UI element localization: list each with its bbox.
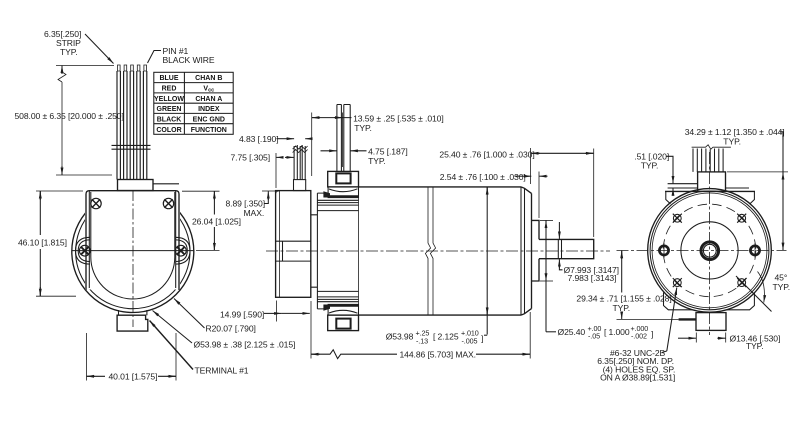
- svg-text:Ø53.98: Ø53.98: [386, 332, 414, 342]
- end bell seam: [520, 187, 522, 315]
- dia 7.993 dim arrows: [558, 222, 560, 239]
- svg-text:MAX.: MAX.: [244, 208, 265, 218]
- brush cap bottom: [328, 315, 359, 331]
- svg-text:Ø53.98 ± .38 [2.125 ± .015]: Ø53.98 ± .38 [2.125 ± .015]: [194, 340, 296, 350]
- connector base plate left ticks: [668, 184, 698, 188]
- dim 46.10 extension top: [36, 190, 83, 192]
- wires right view: [693, 149, 723, 172]
- dim 25.40 ext lines: [530, 148, 532, 184]
- front bell band outline: [317, 193, 327, 309]
- side hole right: [750, 243, 759, 258]
- encoder housing seam: [276, 191, 280, 297]
- encoder top step lip: [153, 183, 179, 185]
- saddle bottom black wedge: [323, 305, 330, 311]
- ext encoder left top: [275, 153, 277, 188]
- post tops: [337, 104, 350, 106]
- dim 144.86 line: [311, 353, 320, 355]
- screw right: [175, 245, 186, 256]
- right ear tab: [176, 237, 191, 264]
- band ring lines bottom: [317, 291, 358, 301]
- terminal tab thick: [679, 318, 696, 320]
- terminal block lower: [117, 315, 148, 331]
- dim 508.00 extension top: [56, 65, 114, 67]
- svg-text:TYP.: TYP.: [368, 156, 386, 166]
- dia 53.98 dim line vertical: [486, 187, 488, 195]
- svg-text:TERMINAL #1: TERMINAL #1: [195, 366, 249, 376]
- dim 13.46 ext lines: [695, 333, 697, 343]
- leader 8.89: [265, 196, 269, 204]
- motor D-shaped housing: [91, 192, 175, 299]
- dia 25.40 boss dim: [545, 220, 547, 331]
- dim 46.10 line: [39, 191, 41, 200]
- terminal block bottom: [696, 313, 726, 331]
- connector base plate right tick: [726, 187, 750, 189]
- horizontal centerline: [617, 249, 787, 251]
- flange left corner: [666, 191, 671, 204]
- shaft boss: [532, 220, 540, 281]
- svg-text:RED: RED: [162, 86, 177, 93]
- outer circle 2: [650, 191, 769, 310]
- wire cut line with break: [692, 145, 731, 149]
- saddle top: [328, 187, 358, 198]
- encoder square housing: [86, 191, 179, 290]
- table grid: [154, 72, 233, 134]
- wires side view: [294, 145, 305, 180]
- svg-text:TYP.: TYP.: [613, 303, 631, 313]
- svg-text:]: ]: [481, 334, 483, 344]
- svg-text:TYP.: TYP.: [723, 137, 741, 147]
- wire 3: [129, 71, 131, 180]
- svg-text:CHAN B: CHAN B: [195, 75, 222, 82]
- encoder square mask: [85, 189, 180, 290]
- dim 13.59 ext lines: [311, 113, 313, 177]
- flange bottom-right corner: [727, 293, 755, 310]
- svg-text:GREEN: GREEN: [157, 106, 182, 113]
- tapped hole BL: [673, 278, 682, 287]
- dim 14.99 line: [264, 312, 273, 314]
- 45 deg arc: [758, 272, 765, 303]
- svg-text:Ø25.40: Ø25.40: [558, 327, 586, 337]
- saddle bottom thick line: [324, 305, 359, 307]
- dim 2.54 ext line: [538, 172, 540, 219]
- end chamfer top: [521, 187, 532, 194]
- svg-text:25.40 ± .76 [1.000 ± .030]: 25.40 ± .76 [1.000 ± .030]: [439, 149, 534, 159]
- encoder wires (left view): [112, 65, 151, 180]
- svg-text:ENC GND: ENC GND: [193, 116, 225, 123]
- dim 34.29 line: [782, 172, 784, 180]
- svg-text:FUNCTION: FUNCTION: [191, 127, 227, 134]
- saddle top thick line: [324, 195, 359, 197]
- brush cap top inner: [336, 173, 350, 183]
- svg-text:Vcc: Vcc: [203, 86, 214, 94]
- leader terminal: [150, 321, 194, 370]
- svg-text:26.04 [1.025]: 26.04 [1.025]: [192, 217, 241, 227]
- dim 26.04 line: [213, 191, 215, 200]
- svg-text:7.75 [.305]: 7.75 [.305]: [231, 153, 271, 163]
- dim 13.59 line: [312, 117, 320, 119]
- encoder housing inner seam right: [175, 191, 177, 288]
- saddle top arc: [329, 189, 358, 192]
- vertical centerline: [132, 190, 134, 327]
- svg-text:BLUE: BLUE: [159, 75, 178, 82]
- motor body outer circle: [72, 191, 194, 313]
- outer circle 3: [652, 193, 767, 308]
- bolt circle dashed: [663, 204, 756, 297]
- dia 25.40 boss ext lines: [540, 219, 553, 221]
- flange right corner: [750, 191, 755, 204]
- stripped wire tips: [118, 65, 147, 71]
- cylinder left joint: [358, 187, 360, 315]
- main cylinder: [359, 187, 522, 315]
- centerline middle view: [266, 250, 610, 252]
- dim 40.01 extensions: [86, 333, 88, 381]
- svg-text:BLACK WIRE: BLACK WIRE: [163, 55, 215, 65]
- dim 26.04 extension bottom (centerline ext): [196, 249, 220, 251]
- screw top-right: [163, 198, 173, 208]
- screw top-left: [91, 198, 101, 208]
- leader #6-32: [662, 351, 667, 353]
- cable band: [112, 144, 151, 146]
- terminal posts: [337, 105, 350, 172]
- dim 508.00 extension bottom: [56, 174, 112, 176]
- svg-text:R20.07 [.790]: R20.07 [.790]: [206, 324, 256, 334]
- wire 4: [136, 71, 138, 180]
- svg-text:2.125: 2.125: [438, 332, 459, 342]
- svg-text:-.005: -.005: [462, 336, 478, 345]
- svg-text:TYP.: TYP.: [773, 282, 791, 292]
- end face: [531, 193, 533, 308]
- leader pin1: [148, 51, 162, 64]
- dim 144.86 ext lines: [310, 301, 312, 359]
- svg-text:-.05: -.05: [588, 332, 600, 341]
- ext connector top: [727, 171, 788, 173]
- dim 29.34 line: [621, 251, 623, 259]
- wire break squiggles: [293, 146, 308, 153]
- shaft ring thick: [701, 242, 719, 260]
- saddle top black wedge: [323, 191, 330, 197]
- svg-text:4.83 [.190]: 4.83 [.190]: [239, 134, 279, 144]
- side hole left: [659, 243, 668, 258]
- svg-text:COLOR: COLOR: [156, 127, 181, 134]
- svg-text:TYP.: TYP.: [641, 160, 659, 170]
- pilot boss circle: [681, 222, 738, 279]
- outer circle 1: [648, 189, 772, 313]
- svg-text:INDEX: INDEX: [198, 106, 220, 113]
- svg-text:ON A Ø38.89[1.531]: ON A Ø38.89[1.531]: [600, 372, 675, 382]
- svg-text:YELLOW: YELLOW: [154, 96, 184, 103]
- ext 29.34 bottom: [617, 318, 679, 320]
- screw left: [79, 245, 90, 256]
- connector block: [698, 172, 726, 192]
- dim 4.75 line: [321, 150, 337, 152]
- dim 40.01 line: [87, 375, 96, 377]
- flange top edge: [665, 190, 755, 192]
- svg-text:CHAN A: CHAN A: [195, 96, 222, 103]
- encoder housing side: [276, 191, 311, 298]
- svg-text:2.54 ± .76 [.100 ± .030]: 2.54 ± .76 [.100 ± .030]: [440, 172, 526, 182]
- leader dia53.98: [153, 311, 193, 344]
- dim 7.75 arrows: [276, 156, 281, 158]
- svg-text:34.29 ± 1.12 [1.350 ± .044]: 34.29 ± 1.12 [1.350 ± .044]: [685, 127, 785, 137]
- band ring lines top: [317, 200, 358, 210]
- dim 46.10 extension bottom: [36, 295, 76, 297]
- encoder side groove lines: [276, 240, 311, 242]
- wire 1: [116, 71, 118, 180]
- saddle bottom: [328, 304, 358, 315]
- dim 34.29 leader elbow: [780, 132, 783, 140]
- svg-text:14.99 [.590]: 14.99 [.590]: [220, 310, 264, 320]
- tapped hole BR: [737, 278, 746, 287]
- svg-text:144.86 [5.703] MAX.: 144.86 [5.703] MAX.: [400, 350, 476, 360]
- dim 508.00 line with break: [58, 66, 66, 176]
- end chamfer bottom: [521, 309, 532, 316]
- leader .51: [667, 156, 674, 175]
- 45 deg radial line: [736, 276, 772, 312]
- flange bottom-left corner: [664, 293, 693, 310]
- motor body inner circle: [76, 194, 190, 308]
- dim 4.83 arrows: [277, 138, 286, 140]
- shaft inner: [703, 244, 716, 257]
- leader to wire tips: [85, 34, 114, 64]
- vertical centerline: [709, 152, 711, 335]
- svg-text:29.34 ± .71 [1.155 ± .028]: 29.34 ± .71 [1.155 ± .028]: [576, 294, 671, 304]
- dim 26.04 extension top: [182, 190, 220, 192]
- encoder groove tab: [282, 241, 284, 261]
- left ear tab: [76, 237, 91, 264]
- encoder housing inner seam left: [88, 191, 90, 288]
- svg-text:TYP.: TYP.: [354, 123, 372, 133]
- tapped hole TL: [673, 214, 682, 223]
- dim 25.40 line: [531, 152, 540, 154]
- tapped hole TR: [737, 214, 746, 223]
- svg-text:BLACK: BLACK: [157, 116, 182, 123]
- svg-text:-.002: -.002: [631, 332, 647, 341]
- wire 5: [142, 71, 144, 180]
- dim 13.46 line: [678, 337, 687, 339]
- terminal block upper: [119, 310, 147, 315]
- svg-text:7.983 [.3143]: 7.983 [.3143]: [568, 273, 617, 283]
- svg-text:4.75 [.187]: 4.75 [.187]: [368, 147, 408, 157]
- saddle bottom arc: [329, 310, 358, 313]
- wire pedestal side: [294, 180, 306, 191]
- svg-text:40.01 [1.575]: 40.01 [1.575]: [109, 372, 158, 382]
- front plate step: [311, 215, 318, 287]
- svg-text:]: ]: [651, 329, 653, 339]
- horizontal centerline: [72, 250, 195, 252]
- svg-text:TYP.: TYP.: [60, 47, 78, 57]
- shaft: [539, 239, 594, 258]
- svg-text:508.00 ± 6.35 [20.000 ± .250]: 508.00 ± 6.35 [20.000 ± .250]: [15, 111, 124, 121]
- shaft flat lines: [558, 239, 561, 258]
- wire 2: [123, 71, 125, 180]
- svg-text:46.10 [1.815]: 46.10 [1.815]: [18, 238, 67, 248]
- svg-text:-.13: -.13: [416, 336, 428, 345]
- svg-text:13.59 ± .25 [.535 ± .010]: 13.59 ± .25 [.535 ± .010]: [353, 114, 444, 124]
- svg-text:8.89 [.350]: 8.89 [.350]: [226, 199, 266, 209]
- svg-text:1.000: 1.000: [609, 327, 630, 337]
- brush cap bottom inner: [336, 319, 350, 329]
- break lines: [425, 187, 435, 315]
- svg-text:TYP.: TYP.: [746, 341, 764, 351]
- encoder connector pedestal: [118, 180, 154, 191]
- dim 2.54 line: [515, 175, 524, 177]
- brush cap top: [328, 171, 359, 187]
- leader R20.07: [174, 299, 205, 329]
